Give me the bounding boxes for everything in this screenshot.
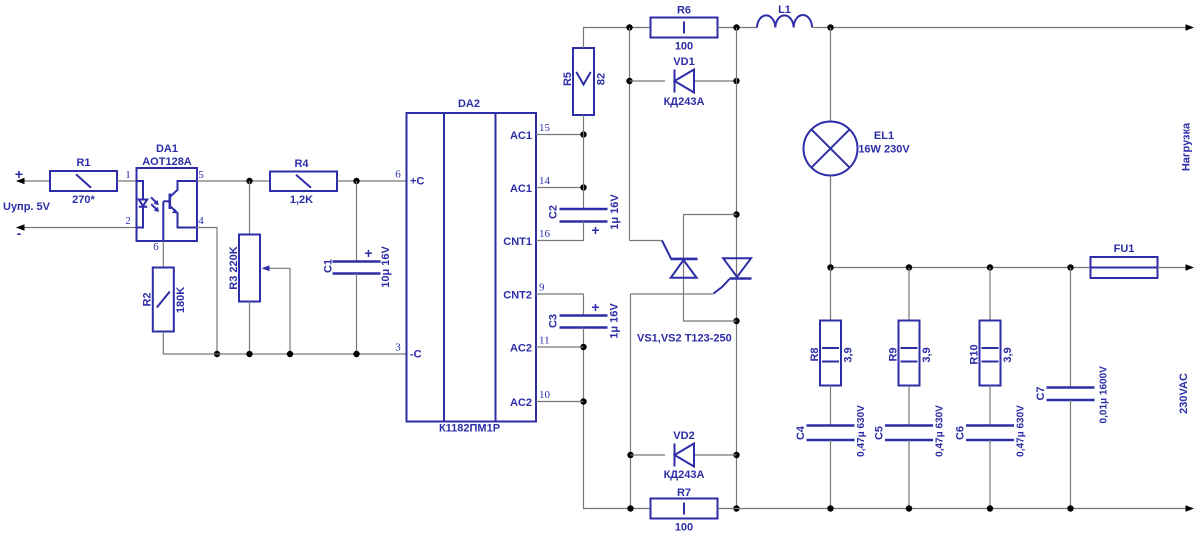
junction R9: [906, 264, 912, 270]
svg-text:R7: R7: [677, 487, 691, 499]
svg-text:+: +: [15, 166, 23, 182]
wire R1 to DA1 pin1: [117, 180, 137, 182]
svg-text:FU1: FU1: [1114, 243, 1135, 255]
svg-text:VD2: VD2: [673, 430, 694, 442]
svg-text:VD1: VD1: [673, 56, 694, 68]
resistor R7: [651, 499, 718, 519]
svg-text:L1: L1: [778, 4, 791, 16]
svg-text:1,2K: 1,2K: [290, 194, 313, 206]
svg-text:R5: R5: [562, 72, 574, 86]
svg-text:100: 100: [675, 522, 693, 534]
junction С4/bottom rail: [827, 505, 833, 511]
svg-text:AC2: AC2: [510, 343, 532, 355]
resistor R5: [573, 48, 594, 115]
svg-text:+: +: [591, 299, 599, 315]
svg-text:0,47μ 630V: 0,47μ 630V: [1016, 405, 1027, 457]
svg-text:1μ 16V: 1μ 16V: [609, 303, 621, 339]
svg-text:10μ 16V: 10μ 16V: [380, 246, 392, 288]
svg-text:DA1: DA1: [156, 143, 178, 155]
junction VD2/right rail: [733, 452, 739, 458]
junction pin14: [580, 184, 586, 190]
diode VD2 КД243А: [631, 454, 666, 456]
wire R2 bottom to rail: [163, 332, 406, 355]
svg-text:0,47μ 630V: 0,47μ 630V: [856, 405, 867, 457]
junction R3/gnd: [246, 351, 252, 357]
inductor L1: [757, 15, 812, 28]
svg-text:16: 16: [539, 228, 551, 240]
svg-text:С2: С2: [548, 205, 560, 219]
wire thyristor bridge left branch: [684, 215, 737, 322]
capacitor С5: [908, 386, 910, 426]
right power rail: [736, 28, 738, 509]
svg-text:1: 1: [125, 169, 131, 181]
wire DA1 pin4 down: [197, 228, 217, 355]
wire DA2 pin15 stub: [536, 134, 584, 136]
svg-text:CNT2: CNT2: [503, 290, 532, 302]
wire DA1 pin6 to R2: [162, 241, 164, 268]
wire R6 to L1: [718, 27, 758, 29]
svg-text:R8: R8: [809, 347, 821, 361]
resistor R2: [153, 268, 174, 332]
svg-text:+: +: [364, 245, 372, 261]
svg-text:Uупр. 5V: Uупр. 5V: [3, 201, 51, 213]
R3 wiper arrow: [264, 268, 290, 354]
wire R5 bottom: [583, 115, 585, 135]
svg-text:180K: 180K: [175, 287, 187, 313]
svg-text:2: 2: [125, 215, 131, 227]
junction R10: [987, 264, 993, 270]
svg-text:4: 4: [198, 215, 204, 227]
svg-text:R9: R9: [888, 347, 900, 361]
svg-text:КД243А: КД243А: [664, 469, 705, 481]
svg-text:3: 3: [395, 342, 401, 354]
svg-text:6: 6: [395, 169, 401, 181]
svg-text:R3 220K: R3 220K: [228, 246, 240, 289]
junction R6/right rail: [733, 24, 739, 30]
junction С6/bottom rail: [987, 505, 993, 511]
svg-text:С4: С4: [795, 425, 807, 440]
top rail to load terminal: [812, 27, 1192, 29]
svg-text:AC2: AC2: [510, 397, 532, 409]
terminal + (Uупр input): [17, 180, 50, 182]
junction right rail/bottom rail: [733, 505, 739, 511]
svg-text:С7: С7: [1035, 386, 1047, 400]
svg-text:230VAC: 230VAC: [1178, 373, 1190, 414]
svg-text:С5: С5: [874, 426, 886, 440]
capacitor C7: [1070, 268, 1072, 388]
wire C2 to pin16: [536, 222, 584, 241]
svg-text:R2: R2: [142, 292, 154, 306]
junction pin11: [580, 344, 586, 350]
junction gate column/bottom rail: [627, 505, 633, 511]
wire C3 to pin11, down to pin10 and R7 rail: [584, 328, 651, 509]
svg-text:0,47μ 630V: 0,47μ 630V: [935, 405, 946, 457]
load / snubber rail: [831, 267, 1091, 269]
svg-text:0,01μ 1600V: 0,01μ 1600V: [1099, 366, 1110, 424]
resistor R10: [989, 268, 991, 321]
junction pin10: [580, 398, 586, 404]
thyristor VS1: [662, 241, 698, 278]
junction EL1/R8: [827, 264, 833, 270]
junction C7/bottom rail: [1067, 505, 1073, 511]
junction L1/EL1: [827, 24, 833, 30]
junction pin5/R3: [246, 178, 252, 184]
svg-text:КД243А: КД243А: [664, 96, 705, 108]
svg-text:К1182ПМ1Р: К1182ПМ1Р: [439, 423, 500, 435]
svg-text:11: 11: [539, 335, 550, 347]
svg-text:AC1: AC1: [510, 183, 532, 195]
junction С5/bottom rail: [906, 505, 912, 511]
svg-text:R4: R4: [294, 158, 309, 170]
diode VD1 КД243А: [630, 80, 666, 82]
wire DA1 pin5 to node: [197, 180, 270, 182]
svg-text:15: 15: [539, 122, 551, 134]
capacitor C3: [560, 314, 608, 317]
junction C1/gnd: [353, 351, 359, 357]
svg-text:5: 5: [198, 169, 204, 181]
junction VD1/right rail: [733, 78, 739, 84]
junction R4/C1: [353, 178, 359, 184]
svg-text:270*: 270*: [72, 194, 95, 206]
svg-text:AOT128A: AOT128A: [142, 156, 192, 168]
wire R5 top to rail: [584, 28, 651, 49]
resistor R6: [651, 18, 718, 38]
resistor R1: [50, 171, 117, 191]
arrow load top: [1186, 24, 1195, 30]
svg-text:R6: R6: [677, 5, 691, 17]
svg-text:9: 9: [539, 282, 545, 294]
svg-text:R10: R10: [969, 344, 981, 364]
thyristor VS2: [714, 258, 752, 293]
svg-text:-: -: [17, 225, 22, 241]
svg-text:AC1: AC1: [510, 130, 532, 142]
wire DA2 pin14 stub: [536, 187, 584, 189]
wire DA2 pin9 stub to C3: [536, 294, 584, 316]
svg-text:+C: +C: [410, 176, 424, 188]
svg-text:DA2: DA2: [458, 98, 480, 110]
wire pin15 to pin14 column: [583, 135, 585, 210]
svg-text:3,9: 3,9: [921, 347, 933, 362]
resistor R4: [270, 172, 337, 192]
junction C7: [1067, 264, 1073, 270]
junction thyristor bottom: [733, 318, 739, 324]
junction pin4/gnd rail: [214, 351, 220, 357]
potentiometer R3 220K: [249, 181, 251, 235]
arrow 230VAC bottom: [1186, 505, 1195, 511]
wire R4 to DA2 pin6: [337, 180, 407, 182]
svg-text:C1: C1: [323, 259, 335, 273]
svg-text:100: 100: [675, 41, 693, 53]
svg-text:Нагрузка: Нагрузка: [1181, 122, 1193, 171]
wire gate column upper (top rail to VD1 to VS1 gate): [629, 28, 631, 241]
svg-text:+: +: [591, 222, 599, 238]
optocoupler DA1 AOT128A: [137, 168, 198, 241]
junction wiper/gnd: [287, 351, 293, 357]
svg-text:3,9: 3,9: [843, 347, 855, 362]
svg-text:16W 230V: 16W 230V: [858, 144, 910, 156]
junction top rail/gate column: [626, 24, 632, 30]
svg-text:EL1: EL1: [874, 130, 894, 142]
wire VS2 gate column (to VD2): [631, 293, 714, 295]
svg-text:82: 82: [596, 73, 608, 85]
bottom rail: [718, 508, 1193, 510]
svg-text:3,9: 3,9: [1002, 347, 1014, 362]
svg-text:10: 10: [539, 389, 551, 401]
junction VD1 anode: [626, 78, 632, 84]
capacitor С6: [989, 386, 991, 426]
resistor R9: [908, 268, 910, 321]
svg-text:R1: R1: [76, 157, 90, 169]
lamp EL1 16W 230V: [830, 28, 832, 122]
svg-text:С6: С6: [955, 426, 967, 440]
junction thyristor top: [733, 211, 739, 217]
svg-text:CNT1: CNT1: [503, 236, 532, 248]
junction VD2 anode: [627, 452, 633, 458]
terminal - (Uупр input): [17, 227, 137, 229]
capacitor C2: [560, 208, 608, 211]
svg-text:14: 14: [539, 175, 551, 187]
svg-text:С3: С3: [548, 314, 560, 328]
IC DA2 К1182ПМ1Р: [407, 113, 537, 422]
svg-text:1μ 16V: 1μ 16V: [609, 194, 621, 230]
svg-text:6: 6: [153, 241, 159, 253]
arrow 230VAC top: [1186, 264, 1195, 270]
svg-text:-C: -C: [410, 349, 422, 361]
junction pin15/R5: [580, 131, 586, 137]
capacitor C1: [356, 181, 358, 262]
svg-text:VS1,VS2 Т123-250: VS1,VS2 Т123-250: [637, 333, 732, 345]
capacitor С4: [830, 386, 832, 426]
fuse FU1: [1091, 257, 1158, 278]
resistor R8: [830, 268, 832, 321]
